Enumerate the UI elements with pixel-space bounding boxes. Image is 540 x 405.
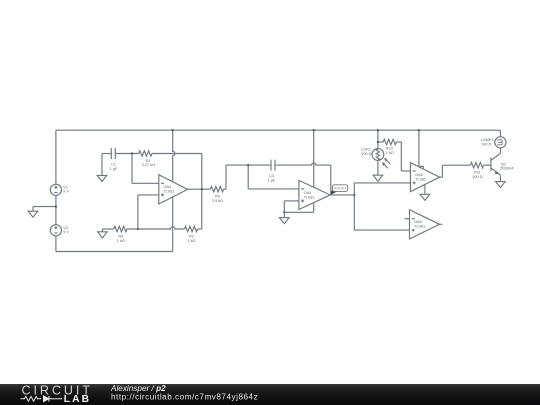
svg-text:R10: R10 <box>386 147 393 151</box>
label V2 <box>63 226 68 230</box>
wire OA4 non-inverting input to ground node <box>284 201 299 212</box>
label V1 <box>63 185 68 189</box>
junction top rail / OA4 V+ <box>313 129 315 131</box>
wire OA2 non-inverting input to node B <box>138 195 159 229</box>
wire top +9V rail <box>56 129 501 131</box>
wire bottom -9V rail <box>56 251 173 253</box>
wire R3 to R2 (hop over V- wire) <box>127 227 184 229</box>
svg-text:1 µF: 1 µF <box>110 167 118 171</box>
svg-text:OA4: OA4 <box>304 191 313 195</box>
svg-text:LDR1: LDR1 <box>361 148 371 152</box>
wire V1-V2 middle <box>55 195 57 224</box>
capacitor C3 <box>271 160 275 171</box>
wire OA2 output <box>188 188 211 190</box>
label R1 value 2.27 kOhm <box>142 163 155 167</box>
svg-text:100 Ω: 100 Ω <box>361 152 371 156</box>
wire C1 to node A <box>115 153 139 155</box>
svg-text:R2: R2 <box>189 235 194 239</box>
capacitor C1 <box>111 148 115 159</box>
op-amp OA4 <box>299 180 330 209</box>
label R11 <box>474 170 481 174</box>
ground Q1 emitter <box>496 182 506 188</box>
wire R10 to OA5 inverting input <box>396 142 410 171</box>
label LDR1 value 100 Ohm <box>361 152 371 156</box>
svg-text:http://circuitlab.com/c7mv874y: http://circuitlab.com/c7mv874yj864z <box>111 393 258 402</box>
wire R10 left lead <box>378 141 383 143</box>
resistor R2 <box>184 226 197 232</box>
svg-text:OA2: OA2 <box>164 185 172 189</box>
wire lamp top lead <box>499 130 501 137</box>
footer title Alexinsper / p2 <box>110 384 166 393</box>
label V2 value 9 V <box>63 230 69 234</box>
junction top rail / OA5 V+ <box>418 129 420 131</box>
label V1 value 9 V <box>63 190 69 194</box>
wire R1 to feedback corner <box>152 154 202 190</box>
footer bar <box>0 384 540 405</box>
svg-text:9 V: 9 V <box>63 230 69 234</box>
wire OA5 V+ pin to top rail <box>419 130 423 169</box>
label OA5 part TL081 <box>415 178 426 182</box>
op-amp OA2 <box>159 175 188 204</box>
junction top rail / LDR1 <box>377 129 379 131</box>
resistor R11 <box>470 162 483 168</box>
wire node A to OA2 inverting input <box>132 154 159 184</box>
ground OA5 <box>420 194 430 200</box>
svg-text:1 µF: 1 µF <box>268 178 276 182</box>
node B junction (R3/R2/non-inverting) <box>137 228 139 230</box>
svg-text:C3: C3 <box>269 174 274 178</box>
transistor Q1 2N3904 <box>491 148 501 182</box>
wire OA5 output to R11 <box>440 165 471 177</box>
label Q1 <box>501 162 506 166</box>
label LAMP1 value 100 Ohm <box>481 143 491 147</box>
wire C3 to OA4 output (hop over V+ wire) <box>275 163 331 194</box>
wire OA2 V- pin to bottom rail <box>172 197 174 252</box>
svg-text:R3: R3 <box>118 235 123 239</box>
resistor R9 <box>210 186 223 192</box>
wire supply midpoint to ground <box>33 207 56 212</box>
label LDR1 <box>361 148 371 152</box>
svg-text:V1: V1 <box>63 185 68 189</box>
wire V1 top lead <box>55 130 57 184</box>
ground R3 <box>98 232 108 238</box>
label R10 <box>386 147 393 151</box>
node A junction (C1/R1/inverting input) <box>131 152 133 154</box>
wire V2 bottom lead <box>55 236 57 252</box>
CircuitLab logo LAB <box>64 394 91 405</box>
svg-text:R9: R9 <box>215 195 220 199</box>
op-amp OA6 <box>410 210 440 239</box>
svg-text:TL081: TL081 <box>415 178 426 182</box>
wire node C to OA4 inverting input <box>248 165 299 189</box>
label C3 <box>269 174 274 178</box>
label OA2 <box>164 185 172 189</box>
wire LDR1 bottom to ground <box>377 160 379 175</box>
svg-text:V2: V2 <box>63 226 68 230</box>
svg-text:100 Ω: 100 Ω <box>472 175 482 179</box>
label OA4 part TL081 <box>304 195 315 199</box>
label R3 <box>118 235 123 239</box>
node C junction (C3 left / OA4 inverting) <box>247 164 249 166</box>
node LDR1/R10 junction <box>377 141 379 143</box>
label C3 value 1 uF <box>268 178 276 182</box>
svg-text:OA6: OA6 <box>414 220 422 224</box>
footer url <box>111 393 258 402</box>
label R3 value 1 kOhm <box>117 239 125 243</box>
ground C1 <box>97 175 107 181</box>
voltage source V1 <box>50 184 61 195</box>
node NODE3 flag pointer <box>330 190 336 195</box>
wire R11 to Q1 base <box>484 164 491 166</box>
svg-text:2N3904: 2N3904 <box>500 167 514 171</box>
wire R9 to C3 node <box>224 165 271 189</box>
label Q1 part 2N3904 <box>500 167 514 171</box>
node OA2 output junction <box>201 188 203 190</box>
svg-text:NODE3: NODE3 <box>334 187 346 191</box>
CircuitLab logo squiggle (resistor + diode) <box>21 396 62 402</box>
svg-text:OA5: OA5 <box>415 173 423 177</box>
label OA6 <box>414 220 422 224</box>
wire OA4 output <box>330 194 354 196</box>
svg-text:Alexinsper / p2: Alexinsper / p2 <box>110 384 166 393</box>
wire C1 left to ground <box>102 154 111 176</box>
svg-text:TL081: TL081 <box>164 190 175 194</box>
label LAMP1 <box>481 138 494 142</box>
ground supply midpoint <box>28 211 38 217</box>
voltage source V2 <box>50 225 61 236</box>
svg-text:LAMP1: LAMP1 <box>481 138 494 142</box>
resistor R3 <box>114 226 127 232</box>
svg-text:1 kΩ: 1 kΩ <box>386 151 394 155</box>
label R10 value 1 kOhm <box>386 151 394 155</box>
label OA5 <box>415 173 423 177</box>
label R2 value 1 kOhm <box>187 239 195 243</box>
wire ground stub OA4 <box>283 212 285 217</box>
wire OA6 inverting input stub <box>405 218 410 220</box>
label R9 <box>215 195 220 199</box>
wire R3 to ground <box>102 229 113 232</box>
photoresistor LDR1 <box>372 149 390 169</box>
wire OA5 V- to ground <box>424 185 426 195</box>
wire NODE3 to OA6 non-inverting input <box>354 195 409 230</box>
svg-text:TL081: TL081 <box>414 225 425 229</box>
label OA4 <box>304 191 313 195</box>
node NODE3 flag <box>333 185 348 192</box>
wire OA6 output stub <box>440 223 443 225</box>
label C1 <box>111 163 116 167</box>
svg-text:2.5 kΩ: 2.5 kΩ <box>212 199 223 203</box>
resistor R10 <box>383 139 396 145</box>
ground OA4 <box>280 218 290 224</box>
label R2 <box>189 235 194 239</box>
label R1 <box>146 159 151 163</box>
label R9 value 2.5 kOhm <box>212 199 223 203</box>
svg-text:TL081: TL081 <box>304 195 315 199</box>
wire NODE3 to OA5 non-inverting input <box>354 183 410 195</box>
junction top rail / OA2 V+ <box>172 129 174 131</box>
wire R2 up to OA2 output node <box>198 189 202 229</box>
resistor R1 <box>139 151 152 157</box>
svg-text:LAB: LAB <box>64 394 91 405</box>
label R11 value 100 Ohm <box>472 175 482 179</box>
op-amp OA5 <box>410 163 439 192</box>
wire LDR1 top to rail <box>377 130 379 148</box>
svg-text:C1: C1 <box>111 163 116 167</box>
wire OA4 V- pin to ground node <box>284 203 313 213</box>
wire OA2 V+ pin to top rail (hop over feedback) <box>173 130 175 182</box>
svg-text:1 kΩ: 1 kΩ <box>117 239 125 243</box>
svg-text:9 V: 9 V <box>63 190 69 194</box>
node NODE3 junction <box>353 194 355 196</box>
label OA2 part TL081 <box>164 190 175 194</box>
label OA6 part TL081 <box>414 225 425 229</box>
svg-text:1 kΩ: 1 kΩ <box>187 239 195 243</box>
ground LDR1 <box>373 175 383 181</box>
svg-text:2.27 kΩ: 2.27 kΩ <box>142 163 155 167</box>
lamp LAMP1 <box>495 137 506 148</box>
svg-text:R1: R1 <box>146 159 151 163</box>
svg-text:100 Ω: 100 Ω <box>481 143 491 147</box>
node OA4 ground junction <box>283 211 285 213</box>
wire OA4 V+ pin to top rail <box>313 130 315 187</box>
CircuitLab logo CIRCUIT <box>22 384 93 398</box>
junction V1-V2 midpoint <box>55 205 57 207</box>
label C1 value 1 uF <box>110 167 118 171</box>
svg-text:R11: R11 <box>474 170 481 174</box>
